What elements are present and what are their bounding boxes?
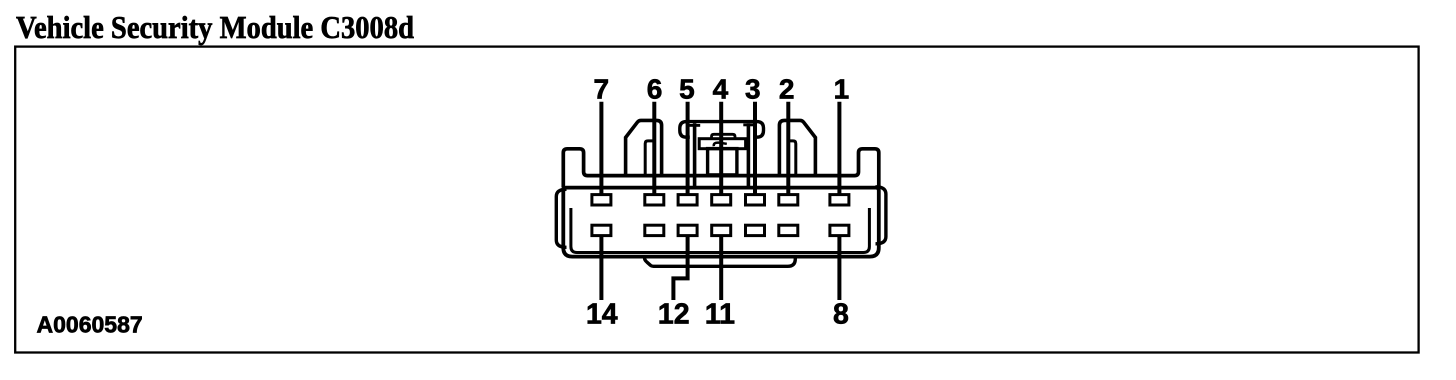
svg-text:5: 5 xyxy=(679,74,695,105)
pin 8 cavity xyxy=(830,225,849,235)
right side ear bump xyxy=(876,187,886,244)
svg-text:6: 6 xyxy=(647,74,663,105)
left hump outer xyxy=(626,120,662,175)
leader pin 8 xyxy=(837,235,841,300)
leader pin 11 xyxy=(719,235,723,300)
latch tongue xyxy=(708,149,737,175)
right hump outer xyxy=(779,120,815,175)
latch right leg xyxy=(747,123,751,187)
pin 6 cavity xyxy=(645,195,664,205)
latch bar detail mark xyxy=(714,143,727,147)
pin 13 cavity xyxy=(645,225,664,235)
pin 14 cavity xyxy=(592,225,611,235)
leader pin 4 xyxy=(719,102,723,195)
svg-text:Vehicle Security Module C3008d: Vehicle Security Module C3008d xyxy=(16,10,414,45)
latch top nub xyxy=(712,134,736,138)
latch cross bar xyxy=(699,139,745,149)
leader pin 5 xyxy=(686,102,690,195)
left side ear bump xyxy=(556,189,566,247)
latch left leg xyxy=(693,123,697,187)
leader pin 1 xyxy=(837,102,841,195)
leader pin 6 xyxy=(652,102,656,195)
pin 2 cavity xyxy=(779,195,798,205)
latch right tick xyxy=(743,124,755,127)
pin 9 cavity xyxy=(779,225,798,235)
pin 5 cavity xyxy=(678,195,697,205)
left hump inner line xyxy=(645,141,653,176)
bottom keying rib xyxy=(645,258,796,267)
pin 7 cavity xyxy=(592,195,611,205)
connector inner wall line xyxy=(571,208,870,253)
svg-text:A0060587: A0060587 xyxy=(37,311,143,337)
svg-text:12: 12 xyxy=(658,298,690,330)
pin 12 cavity xyxy=(678,225,697,235)
connector body outline xyxy=(563,188,879,257)
svg-text:11: 11 xyxy=(705,298,735,330)
svg-text:8: 8 xyxy=(833,298,849,330)
svg-text:7: 7 xyxy=(594,74,610,105)
svg-text:2: 2 xyxy=(779,74,795,105)
leader pin 7 xyxy=(599,102,603,195)
shroud top edge with corner tabs xyxy=(563,149,879,188)
svg-text:1: 1 xyxy=(834,74,850,105)
latch left tick xyxy=(689,124,700,127)
leader pin 3 xyxy=(753,102,757,195)
pin 3 cavity xyxy=(746,195,765,205)
leader pin 12 jogged xyxy=(673,235,687,300)
pin 4 cavity xyxy=(712,195,731,205)
latch top plate with curled ends xyxy=(680,122,764,138)
leader pin 2 xyxy=(786,102,790,195)
svg-text:14: 14 xyxy=(586,298,618,330)
pin 11 cavity xyxy=(712,225,731,235)
svg-text:3: 3 xyxy=(745,74,761,105)
pin 1 cavity xyxy=(830,195,849,205)
svg-text:4: 4 xyxy=(713,74,729,105)
leader pin 14 xyxy=(599,235,603,300)
diagram frame box xyxy=(15,47,1418,353)
right hump inner line xyxy=(788,141,796,176)
pin 10 cavity xyxy=(746,225,765,235)
